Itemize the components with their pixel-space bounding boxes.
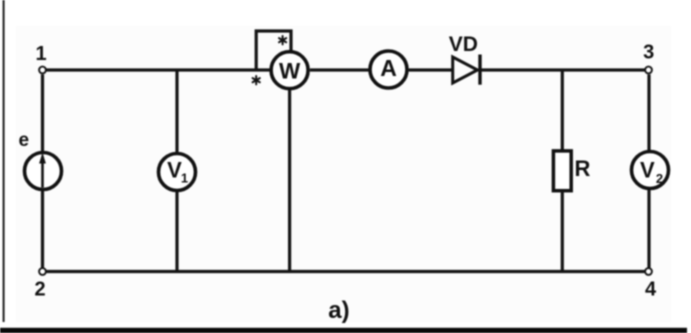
- svg-text:1: 1: [181, 171, 188, 186]
- svg-text:R: R: [575, 156, 591, 181]
- svg-text:W: W: [279, 58, 301, 83]
- svg-text:3: 3: [643, 41, 654, 63]
- svg-text:1: 1: [35, 43, 46, 65]
- svg-text:2: 2: [34, 279, 45, 301]
- svg-text:2: 2: [656, 171, 663, 186]
- svg-text:A: A: [380, 55, 397, 81]
- svg-text:V: V: [640, 158, 655, 183]
- svg-text:e: e: [19, 130, 30, 151]
- svg-text:a): a): [328, 297, 349, 324]
- svg-text:4: 4: [645, 279, 657, 301]
- svg-text:VD: VD: [449, 33, 478, 56]
